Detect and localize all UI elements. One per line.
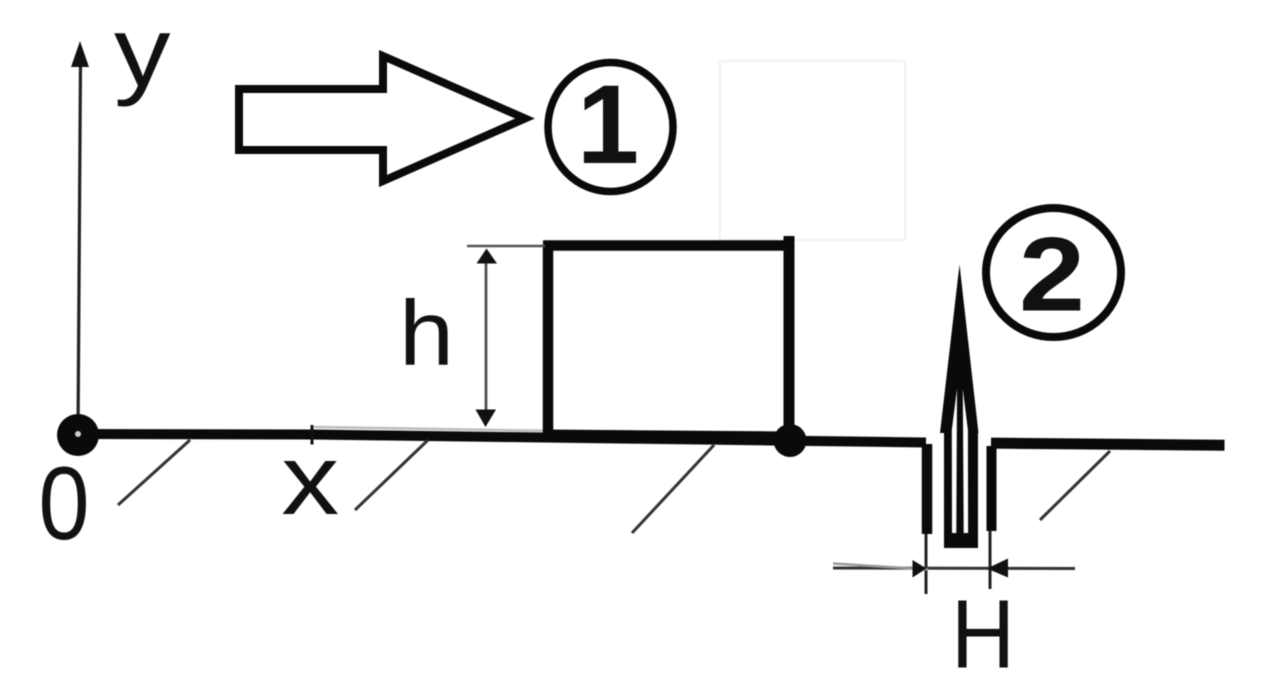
hatch mark 4 — [1040, 451, 1110, 520]
circle 1 — [548, 63, 673, 192]
big hollow arrow (1) — [239, 56, 525, 181]
circle 2 — [986, 208, 1121, 337]
h bottom arrowhead — [476, 410, 497, 428]
svg-text:h: h — [399, 283, 454, 385]
dot at block bottom-right — [774, 424, 807, 457]
hatch mark 2 — [355, 440, 428, 510]
ground line right segment — [991, 443, 1225, 445]
origin dot — [57, 414, 99, 456]
block right edge — [784, 236, 795, 441]
gray artifact above ground — [314, 427, 545, 431]
H dimension doubled gray line — [833, 564, 928, 570]
faint ghost rectangle — [720, 61, 905, 240]
slot right extension line — [989, 531, 992, 589]
svg-text:1: 1 — [577, 62, 639, 187]
H right arrowhead — [987, 559, 1008, 578]
block bottom edge — [545, 433, 792, 435]
block left edge — [543, 246, 554, 442]
svg-text:2: 2 — [1019, 217, 1085, 334]
tick on x axis — [311, 425, 314, 445]
h top arrowhead — [477, 249, 498, 264]
slot right wall — [987, 446, 997, 531]
slot left extension line — [925, 534, 928, 594]
vertical arrow inner white right — [963, 389, 968, 533]
H left arrowhead — [913, 560, 927, 578]
svg-text:x: x — [281, 424, 339, 536]
y axis arrowhead — [71, 41, 89, 67]
vertical arrow inner white left — [952, 389, 957, 533]
vertical arrow (2) silhouette — [940, 265, 979, 549]
h dimension line — [485, 252, 488, 424]
hatch mark 1 — [118, 440, 190, 505]
h extension line — [467, 245, 545, 248]
hatch mark 3 — [632, 445, 714, 533]
block top edge — [543, 240, 794, 251]
ground line left segment — [78, 434, 926, 443]
y axis line — [78, 62, 81, 434]
svg-text:0: 0 — [39, 446, 90, 562]
svg-text:H: H — [951, 580, 1015, 689]
H dimension line — [833, 567, 1075, 571]
slot left wall — [922, 444, 933, 534]
svg-text:y: y — [114, 0, 171, 107]
